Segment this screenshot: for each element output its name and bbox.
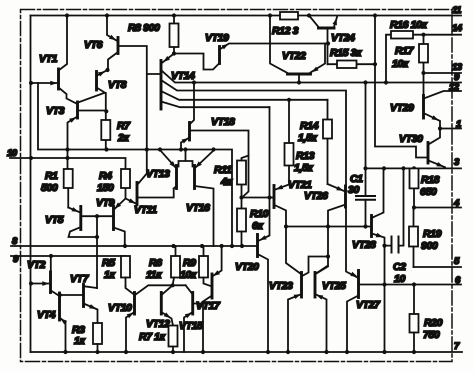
transistor VT23	[288, 257, 328, 353]
svg-text:10к: 10к	[180, 269, 197, 281]
svg-text:1,5к: 1,5к	[294, 162, 313, 174]
transistor VT10	[126, 285, 186, 352]
svg-text:1к: 1к	[104, 269, 115, 281]
svg-text:R20: R20	[424, 317, 443, 329]
svg-text:VT25: VT25	[322, 280, 346, 292]
resistor R9 10k	[199, 246, 212, 287]
resistor R4 150	[121, 169, 130, 199]
transistor VT4	[60, 293, 68, 352]
svg-text:VT18: VT18	[211, 116, 235, 128]
wire: second stage collector node (y=226.5) to VT28 base	[286, 226, 371, 228]
resistor R11 4k	[237, 156, 249, 209]
svg-text:R19: R19	[423, 228, 442, 240]
transistor VT14 (multicollector)	[161, 54, 461, 187]
svg-text:150: 150	[97, 182, 114, 194]
wire: VT21 base net (R10/R11 junction to VT21)	[242, 197, 274, 199]
transistor VT1	[29, 16, 77, 104]
resistor R19 900	[409, 208, 418, 268]
resistor R20 750	[410, 285, 419, 353]
resistor R1 500	[64, 169, 73, 208]
svg-text:VT28: VT28	[352, 239, 376, 251]
transistor VT9	[114, 199, 126, 247]
node: dots on terminal 8 wire	[123, 244, 244, 248]
svg-text:650: 650	[420, 186, 437, 198]
svg-text:VT30: VT30	[399, 133, 423, 145]
svg-text:900: 900	[421, 240, 438, 252]
svg-text:VT22: VT22	[282, 50, 306, 62]
svg-text:R7 1к: R7 1к	[139, 331, 166, 343]
wire: positive supply top bus	[31, 15, 462, 17]
transistor VT25	[315, 254, 330, 352]
svg-text:VT3: VT3	[46, 105, 65, 117]
resistor R7 2k	[101, 93, 110, 150]
svg-text:VT6: VT6	[84, 39, 103, 51]
node: dots on y=226.5 node	[284, 224, 368, 228]
svg-text:R6: R6	[149, 257, 162, 269]
svg-text:VT15: VT15	[179, 320, 203, 332]
node: dots on VT14 collector rail 1 (terminal 9 net)	[192, 80, 388, 84]
wire: bottom bus (terminal 7 rail)	[31, 351, 463, 353]
svg-text:R14: R14	[300, 120, 319, 132]
transistor VT20	[258, 107, 272, 352]
transistor VT18	[181, 83, 249, 198]
resistor R5 1k	[121, 256, 130, 286]
wire: VT28 collector node (y=168.4) to terminal 3	[366, 167, 462, 169]
transistor VT22 (rotated, emitter up-right)	[270, 16, 325, 83]
svg-text:4к: 4к	[220, 176, 232, 188]
node: dot VT2 collector on terminal 9 wire	[49, 254, 53, 258]
svg-text:VT12: VT12	[146, 318, 170, 330]
svg-text:11: 11	[452, 5, 461, 16]
capacitor C1 30	[356, 83, 375, 227]
resistor R12 3 (in top bus)	[280, 12, 298, 20]
svg-text:10: 10	[394, 273, 405, 285]
node: dots on VT28 collector node	[363, 166, 416, 170]
wire: terminal 4 stub	[414, 207, 461, 209]
svg-text:750: 750	[423, 329, 440, 341]
svg-text:VT13: VT13	[146, 168, 170, 180]
svg-text:R7: R7	[117, 120, 131, 132]
svg-text:VT4: VT4	[37, 309, 56, 321]
wire: terminal 5 stub	[414, 266, 462, 268]
transistor VT5	[68, 207, 113, 289]
svg-text:C2: C2	[393, 261, 406, 273]
wire: input rail y=149.5 (VT1 emitter net) with left riser to VT1 emitter	[38, 83, 232, 246]
svg-text:R11: R11	[214, 164, 232, 176]
transistor VT19	[174, 44, 328, 70]
transistor VT13	[160, 150, 193, 189]
transistor VT3	[68, 93, 107, 169]
resistor R6 11k	[171, 246, 181, 287]
svg-text:30: 30	[348, 184, 359, 196]
svg-text:R12 3: R12 3	[272, 25, 299, 37]
wire: left rail	[30, 16, 32, 353]
transistor VT30	[428, 129, 445, 168]
wire: terminal 9 net (y=256) to R5 top	[11, 255, 126, 257]
svg-text:11к: 11к	[146, 269, 162, 281]
svg-text:10к: 10к	[392, 58, 409, 70]
transistor VT21	[274, 166, 301, 275]
transistor VT15	[184, 285, 211, 352]
svg-text:R18: R18	[421, 174, 440, 186]
node: dots on bottom bus	[63, 350, 416, 354]
transistor VT28	[372, 168, 385, 352]
svg-text:R17: R17	[395, 45, 415, 57]
svg-text:R9: R9	[183, 257, 196, 269]
svg-text:VT9: VT9	[96, 197, 115, 209]
resistor R7 1k (VT12 emitter)	[169, 326, 178, 353]
node: dots on y=149.5 rail	[65, 147, 215, 151]
transistor VT17	[203, 246, 222, 352]
svg-text:R4: R4	[99, 170, 112, 182]
wire: terminal 1 stub (VT29 emitter / VT30 collector)	[440, 128, 461, 130]
svg-text:VT20: VT20	[235, 261, 259, 273]
wire: terminal 10 net (y=158) to R4 top	[10, 158, 126, 169]
svg-text:R1: R1	[45, 170, 58, 182]
resistor R10 6k	[237, 209, 246, 247]
wire: terminal 8 net (y=246) to VT20 base	[11, 245, 258, 247]
svg-text:VT24: VT24	[331, 32, 355, 44]
wire: terminal 13 stub	[424, 72, 462, 74]
transistor VT2	[29, 256, 60, 296]
svg-text:VT11: VT11	[134, 204, 157, 216]
transistor VT6	[105, 16, 159, 150]
resistor R15 3k	[328, 61, 378, 69]
transistor VT11	[126, 150, 174, 205]
svg-text:VT2: VT2	[27, 259, 46, 271]
transistor VT7	[58, 285, 98, 324]
svg-text:VT10: VT10	[108, 302, 132, 314]
svg-text:VT27: VT27	[356, 299, 381, 311]
svg-text:14: 14	[452, 23, 463, 34]
svg-text:6к: 6к	[252, 220, 263, 232]
resistor R13 1,5k	[285, 98, 294, 166]
wire: VT30 base staircase from top bus	[375, 16, 428, 158]
resistor R17 10k	[419, 35, 428, 97]
transistor VT24 (rotated, emitter to bus)	[309, 16, 337, 65]
svg-text:VT19: VT19	[205, 32, 229, 44]
resistor R8 900	[170, 16, 179, 56]
capacitor C2 10	[382, 170, 403, 253]
svg-text:R13: R13	[296, 150, 315, 162]
svg-text:VT29: VT29	[390, 102, 414, 114]
svg-text:R15 3к: R15 3к	[330, 47, 362, 59]
svg-text:1к: 1к	[74, 335, 85, 347]
wire: VT26 base feed (collector rail 2 drop) and link to VT27 emitter	[346, 207, 357, 277]
svg-text:VT7: VT7	[70, 273, 90, 285]
transistor VT16	[195, 151, 214, 247]
svg-text:VT17: VT17	[196, 300, 221, 312]
svg-text:R8 900: R8 900	[128, 22, 160, 34]
svg-text:VT23: VT23	[269, 280, 293, 292]
svg-text:VT1: VT1	[39, 53, 58, 65]
resistor R16 10k	[386, 31, 461, 83]
svg-text:VT5: VT5	[45, 214, 64, 226]
transistor VT29	[424, 91, 462, 129]
transistor VT8	[97, 71, 109, 114]
node: dots on terminal 10 wire	[29, 156, 70, 160]
svg-text:R10: R10	[250, 208, 269, 220]
transistor VT26	[316, 184, 346, 274]
node: top bus junction dots	[65, 13, 377, 17]
svg-text:1,5к: 1,5к	[298, 132, 317, 144]
svg-text:R5: R5	[102, 257, 115, 269]
svg-text:2к: 2к	[117, 132, 129, 144]
resistor R14 1,5k	[323, 100, 332, 184]
svg-text:R16 10к: R16 10к	[390, 19, 427, 31]
transistor VT27	[347, 271, 461, 353]
node: dots on terminal 6 net	[382, 282, 416, 286]
svg-text:VT26: VT26	[304, 190, 328, 202]
resistor R3 1k	[93, 323, 102, 352]
svg-text:VT8: VT8	[108, 79, 127, 91]
svg-text:VT16: VT16	[186, 202, 210, 214]
svg-text:500: 500	[41, 182, 58, 194]
transistor VT12	[161, 285, 173, 325]
resistor R18 650	[410, 168, 419, 209]
svg-text:VT14: VT14	[171, 70, 195, 82]
